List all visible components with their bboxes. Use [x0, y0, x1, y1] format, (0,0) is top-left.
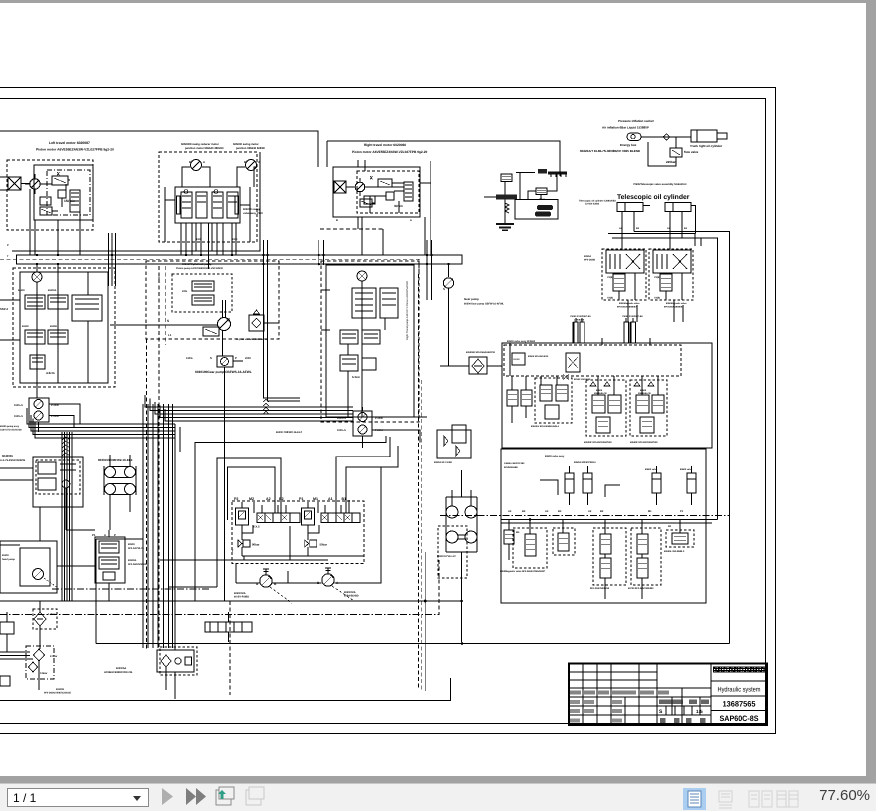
svg-text:Y.X.5: Y.X.5	[253, 525, 260, 529]
pilot dashed vertical 5	[229, 601, 231, 695]
svg-text:A2: A2	[266, 497, 271, 501]
wire right travel link	[346, 186, 355, 188]
svg-text:6030153 CMFW2-16-ELZ: 6030153 CMFW2-16-ELZ	[98, 458, 133, 462]
dashed pilot line right travel	[320, 228, 383, 230]
R valve s1	[525, 534, 536, 556]
pilot throttle	[203, 327, 219, 336]
tank breather circle	[175, 658, 181, 664]
swing pilot valves 1	[540, 385, 552, 401]
svg-text:190%.S: 190%.S	[14, 404, 23, 407]
P1 wires	[108, 530, 110, 601]
R dashed subbox 1	[513, 528, 547, 568]
wire bundle left travel to pumps	[27, 408, 175, 424]
rotary joint circle 3	[446, 531, 458, 543]
upper boundary wire y141	[327, 141, 560, 176]
R loops upper	[570, 493, 692, 505]
svg-text:6F56C 250-B/30: 6F56C 250-B/30	[574, 378, 591, 381]
right travel brake symbol	[334, 181, 346, 193]
motor M2 circle	[355, 182, 365, 192]
telescopic cylinder 1	[617, 203, 643, 212]
svg-text:P 2000: P 2000	[375, 429, 383, 432]
drawing frame outer border	[0, 88, 776, 734]
test rail wire	[547, 175, 557, 192]
aux pump small circle	[62, 480, 70, 488]
swing block inner circles	[184, 190, 218, 194]
rt pump regulator block	[380, 288, 398, 318]
svg-text:6040055: 6040055	[2, 454, 13, 458]
svg-text:605000 swing motor: 605000 swing motor	[233, 143, 259, 146]
telescopic balance valve 2 dashed enclosure	[649, 249, 693, 300]
svg-text:6050000 9F0-D60AGB4Y/B: 6050000 9F0-D60AGB4Y/B	[466, 351, 495, 354]
svg-text:60700 9F0-360/V50E/B3: 60700 9F0-360/V50E/B3	[628, 587, 654, 590]
rt valve row 3	[340, 355, 358, 371]
svg-text:60500: 60500	[596, 389, 603, 392]
svg-text:3l/min: 3l/min	[394, 204, 403, 208]
svg-text:B4: B4	[522, 510, 526, 513]
hand pump enclosure	[0, 541, 57, 593]
crossed check bridge 1	[626, 254, 640, 269]
pilot bus dashed line	[0, 259, 419, 274]
test circuit hatch body	[496, 195, 517, 200]
svg-text:A: A	[410, 219, 412, 222]
valve in right travel motor	[378, 179, 392, 187]
test wire top link	[516, 172, 535, 174]
P2 wires	[242, 502, 254, 556]
tank level square	[185, 657, 192, 665]
filter wires	[39, 601, 40, 690]
svg-text:SAP60C-8S: SAP60C-8S	[720, 714, 759, 723]
truck right oil cylinder	[691, 130, 717, 142]
rt motor tick marks	[350, 178, 360, 196]
swing block risers to bus	[181, 223, 236, 255]
A2B2 solenoid valve	[257, 513, 300, 523]
R valve s3	[600, 534, 611, 554]
pilot valve 1	[192, 281, 214, 291]
svg-text:6040C: 6040C	[22, 325, 29, 328]
riser trio left manifold	[109, 233, 116, 286]
Q left wires	[512, 376, 526, 423]
filter F2 diamond lower	[29, 662, 38, 672]
rotary joint circle 4	[465, 531, 477, 543]
filter F2 box dashdot	[26, 646, 54, 679]
bottom left aux valve	[0, 622, 14, 634]
return line bottom 2	[96, 539, 729, 644]
pilot dashed horizontal centre	[0, 614, 439, 616]
next page arrow icon	[156, 785, 376, 811]
left pump pair box	[29, 398, 49, 422]
svg-text:60600 valve: 60600 valve	[680, 468, 693, 471]
svg-text:P: P	[114, 533, 116, 537]
rotary joint wires	[452, 470, 471, 601]
svg-text:6050008 swing reducer motor: 6050008 swing reducer motor	[181, 143, 219, 146]
gauge dashed leader left	[270, 587, 292, 603]
svg-text:S: S	[210, 356, 212, 360]
svg-text:60P4-BD/BD: 60P4-BD/BD	[344, 595, 359, 598]
aux pump block	[33, 457, 83, 507]
lt motor arrows	[57, 172, 60, 176]
svg-text:250-B-BL/30: 250-B-BL/30	[638, 392, 651, 395]
svg-text:Truck right oil cylinder: Truck right oil cylinder	[690, 144, 723, 148]
R dashed subbox 2	[553, 528, 575, 555]
svg-text:9F0-D604V50E/B: 9F0-D604V50E/B	[128, 563, 147, 566]
wire bus to main pump	[448, 264, 450, 277]
svg-text:Air inflation 6Bar Liquid 1538: Air inflation 6Bar Liquid 153880P	[602, 126, 649, 130]
svg-text:B1: B1	[342, 497, 347, 501]
title row dividers right	[711, 681, 767, 711]
main delivery loop L1	[195, 436, 386, 601]
gauge rail segments	[236, 467, 381, 583]
svg-text:190%.S: 190%.S	[14, 415, 23, 418]
left manifold valve a	[25, 295, 45, 309]
telescopic balance valve 1 body	[606, 250, 644, 273]
return line mid	[160, 559, 280, 561]
rotary joint frame	[446, 497, 477, 552]
swing assembly dashed enclosure	[159, 152, 257, 242]
rotary joint circle 1	[446, 506, 458, 518]
svg-text:P 2000: P 2000	[51, 404, 59, 407]
svg-text:13680A 360F/CF360: 13680A 360F/CF360	[504, 462, 525, 465]
svg-text:A3: A3	[545, 510, 549, 513]
junction dots bottom	[461, 642, 464, 645]
right shuttle valve	[364, 196, 375, 204]
vertical bundle left centre	[61, 432, 63, 462]
right pump circle lower	[358, 425, 367, 434]
svg-text:60500L 250-B5/B-3: 60500L 250-B5/B-3	[664, 550, 685, 553]
tank assembly box	[157, 650, 194, 672]
svg-text:13687565: 13687565	[723, 700, 757, 709]
svg-text:Telescopic oil cylinder: Telescopic oil cylinder	[617, 194, 690, 201]
svg-text:13-504-42/B3: 13-504-42/B3	[585, 203, 600, 206]
wires telescopic assembly 2	[666, 273, 682, 300]
delivery loop L2	[217, 458, 281, 587]
swing pilot dashed box 1	[535, 378, 572, 423]
left manifold valve c	[25, 330, 45, 344]
pilot valve 2	[192, 295, 214, 305]
svg-text:9F0/B3604B9: 9F0/B3604B9	[504, 466, 518, 469]
svg-text:Hydraulic system: Hydraulic system	[718, 687, 761, 694]
wire breather row	[228, 612, 230, 642]
delivery loop L3	[228, 467, 276, 520]
right pump wires down	[362, 407, 364, 448]
svg-text:S: S	[167, 319, 169, 323]
aux pump inner valve	[38, 462, 56, 474]
R internal wires	[530, 520, 680, 535]
svg-text:Right travel motor 6020060: Right travel motor 6020060	[364, 143, 406, 147]
motor M1 circle	[30, 179, 40, 189]
svg-text:60400A: 60400A	[48, 289, 57, 292]
drawing frame inner border	[0, 99, 766, 724]
svg-text:250-B-BL/30: 250-B-BL/30	[594, 392, 607, 395]
P2 relief valve	[238, 540, 242, 547]
rt motor inner valve 2	[360, 199, 372, 207]
svg-text:A2: A2	[588, 510, 592, 513]
wires swing block down	[186, 223, 232, 255]
right travel pump body	[326, 265, 414, 417]
svg-text:9F0-D60B: 9F0-D60B	[584, 259, 595, 262]
svg-text:9F0-D60GV50E/V25AGE: 9F0-D60GV50E/V25AGE	[44, 692, 72, 695]
tank wires	[166, 642, 175, 699]
svg-text:junction motor 955640 4E0260: junction motor 955640 4E0260	[184, 147, 224, 150]
test circuit wires	[505, 173, 541, 224]
pilot dashed vertical 1	[146, 339, 148, 650]
swing manifold body Q	[502, 343, 712, 448]
title bottom row glyphs	[660, 718, 666, 723]
A1B1 solenoid valve	[321, 513, 360, 523]
svg-text:6050Magnetic valve 9F0-360A/V2: 6050Magnetic valve 9F0-360A/V25AGE/8?	[500, 570, 546, 573]
swing valve block	[175, 187, 240, 223]
svg-text:B: B	[189, 160, 191, 164]
svg-text:70kW/Telescopic valve assembly: 70kW/Telescopic valve assembly SAB-R/A3	[633, 183, 687, 186]
svg-text:2.0bar: 2.0bar	[50, 655, 57, 658]
gear pump box	[217, 356, 233, 367]
relief block above rotary joint	[437, 430, 471, 458]
svg-text:60520A/ 9F0-D6/9B0-/B/B-4: 60520A/ 9F0-D6/9B0-/B/B-4	[531, 425, 560, 428]
svg-text:60400 CMFW2-16-ELZ: 60400 CMFW2-16-ELZ	[276, 431, 302, 434]
svg-text:P1: P1	[299, 497, 303, 501]
test left stub	[484, 196, 496, 198]
svg-text:2000: 2000	[232, 238, 238, 241]
upper boundary wire y131	[0, 131, 318, 167]
bottom left small box2	[0, 676, 10, 686]
riser x175 to tank	[174, 448, 176, 642]
counterbalance valve	[70, 190, 80, 212]
standing cylinder pair 2 on manifold	[624, 322, 629, 343]
swivel joint circle crossed	[32, 272, 42, 282]
svg-text:Right Travel pump A10VO71 Pist: Right Travel pump A10VO71 Piston-LRDSFN2…	[406, 281, 409, 340]
left bundle continuation down	[61, 462, 63, 601]
pilot filter before manifold	[469, 357, 487, 374]
svg-text:Y2(B): Y2(B)	[654, 276, 660, 279]
svg-text:60600 valve assy: 60600 valve assy	[545, 455, 565, 458]
wire motor down	[30, 189, 58, 255]
svg-text:6060A 6F-CL/88: 6060A 6F-CL/88	[434, 461, 452, 464]
lt motor inner valve2	[40, 207, 52, 215]
telescopic balance valve 1 dashed enclosure	[602, 249, 646, 300]
svg-text:P 2000: P 2000	[375, 417, 383, 420]
R left small valves	[504, 530, 514, 544]
gear pump wires	[225, 361, 244, 392]
rt valve row 4	[362, 358, 376, 370]
svg-text:Piston motor A6VE55EZ4/63W-VZL: Piston motor A6VE55EZ4/63W-VZL027FPB 9g2…	[36, 148, 114, 152]
pilot dashed vertical 4	[421, 380, 423, 690]
wire pump vertical pair	[223, 300, 280, 356]
R small cylinders group	[565, 473, 574, 493]
right pump circle upper	[358, 413, 367, 422]
R valve s5	[672, 533, 688, 544]
title tiny labels	[570, 691, 581, 695]
R bus line 1	[501, 519, 718, 521]
pilot group bottom rail	[242, 555, 364, 557]
swing manifold top dashed area	[504, 345, 681, 376]
wire bundle centre to right pumps	[145, 395, 353, 407]
swing motor A circle	[191, 160, 202, 171]
solenoid valve under assembly 2	[660, 274, 672, 291]
svg-text:190%.S: 190%.S	[337, 429, 346, 432]
solenoid valve under assembly 1	[613, 274, 625, 291]
main pressure bus band	[17, 255, 463, 264]
svg-text:A: A	[203, 160, 205, 164]
svg-text:60500A: 60500A	[128, 559, 137, 562]
svg-text:A10VO71+A10VO28: A10VO71+A10VO28	[0, 429, 22, 432]
test tank symbol	[496, 223, 514, 225]
svg-text:A1: A1	[328, 497, 333, 501]
svg-text:Y5050 DY5/P9E7.B6: Y5050 DY5/P9E7.B6	[622, 315, 643, 318]
title block company name	[714, 667, 767, 672]
gauge circle left	[260, 575, 272, 587]
pilot dashed vertical 2	[158, 266, 160, 648]
rt pump swivel circle	[357, 271, 367, 281]
svg-text:60600 valve: 60600 valve	[645, 468, 658, 471]
svg-text:P: P	[7, 244, 9, 247]
wire chevrons pilot riser	[263, 400, 269, 403]
svg-text:6040D: 6040D	[50, 325, 57, 328]
riser pair right travel manifold	[319, 240, 324, 265]
P2 reducing valve box	[236, 508, 249, 525]
swing valve section 1	[181, 192, 192, 218]
swing work valves 3	[634, 382, 654, 386]
return line bottom 1	[0, 600, 461, 602]
svg-text:T: T	[232, 549, 234, 553]
lt motor small sq	[58, 190, 66, 198]
X mark under solenoid	[563, 374, 569, 380]
telescopic loop wires upper right	[608, 234, 701, 246]
swing valve section 4	[227, 192, 238, 218]
left mid horizontal y539	[96, 538, 143, 540]
return trunk drops	[225, 601, 329, 612]
R dashed subbox 5	[666, 530, 694, 547]
svg-text:9F0-D4Y50-CL: 9F0-D4Y50-CL	[128, 547, 145, 550]
svg-text:P1: P1	[92, 533, 96, 537]
rt valve row 1	[340, 330, 358, 344]
wires swing motor B	[237, 167, 257, 187]
rotary joint link	[458, 535, 465, 539]
right travel motor block	[333, 167, 420, 217]
right counterbalance valve	[404, 182, 413, 201]
svg-text:60300 pump assy: 60300 pump assy	[0, 425, 20, 428]
solid line y587	[168, 586, 217, 588]
triple return lines left	[0, 652, 33, 659]
rt motor inner small sq	[386, 192, 394, 200]
wire left travel ports	[30, 212, 80, 255]
swing enclosure bottom line	[12, 152, 260, 251]
svg-text:P2: P2	[234, 497, 238, 501]
svg-text:1005: 1005	[196, 238, 202, 241]
wire x109 down	[108, 583, 110, 601]
svg-text:hand pump: hand pump	[2, 558, 15, 561]
test circuit valve A	[501, 174, 512, 182]
svg-text:Piston pump A10VO28DR/31R-VSC1: Piston pump A10VO28DR/31R-VSC12N00	[176, 267, 223, 270]
filter F2 diamond upper	[34, 649, 45, 661]
long wire bus lower nest	[175, 424, 180, 452]
svg-text:60400: 60400	[2, 554, 9, 557]
right pump outputs	[372, 417, 427, 443]
svg-text:Y2(B): Y2(B)	[607, 297, 613, 300]
wire main pump down	[448, 288, 450, 366]
P1 row wires	[308, 502, 318, 556]
wire centre x254 down	[253, 470, 255, 506]
svg-text:L1: L1	[168, 333, 172, 337]
svg-text:B2: B2	[600, 510, 604, 513]
rt box right wires	[420, 161, 431, 255]
rt manifold wires	[348, 281, 385, 417]
swing work dashed box 2	[586, 380, 626, 436]
manifold Q top ties	[510, 338, 650, 376]
rt port marks	[321, 290, 330, 330]
accumulator down wire	[675, 137, 677, 148]
left pump circle lower	[34, 411, 43, 420]
svg-text:B: B	[244, 160, 246, 164]
svg-text:60500 valve assy 9F0360: 60500 valve assy 9F0360	[507, 340, 536, 343]
Q left small valves	[507, 390, 518, 406]
svg-text:M1: M1	[313, 497, 318, 501]
R dashdot pilot line	[440, 515, 729, 517]
left manifold relief	[30, 355, 45, 369]
rt valve row 2	[362, 330, 380, 344]
bus drop to left manifold	[37, 264, 58, 268]
riser pair pilot X Y	[264, 240, 268, 302]
svg-text:60500: 60500	[128, 543, 135, 546]
svg-text:Energy box: Energy box	[620, 143, 637, 147]
gauge tee symbol left	[263, 569, 269, 575]
svg-text:4.3cm: 4.3cm	[46, 371, 55, 375]
pilot dashdot horizontal upper	[52, 588, 210, 590]
riser to x730 from cylinder1	[634, 232, 729, 644]
svg-text:60500F 9F0-2G5V50/2V50: 60500F 9F0-2G5V50/2V50	[630, 441, 658, 444]
gauge circle right	[322, 574, 334, 586]
tank drop from riser	[174, 642, 176, 650]
svg-text:13/5/B340: 13/5/B340	[574, 319, 585, 322]
svg-text:60300 DYVE-I-8?: 60300 DYVE-I-8?	[437, 555, 456, 558]
delivery loop L5	[346, 446, 398, 513]
riser pair main pump top	[427, 240, 432, 300]
aux pump inner dashed box	[36, 460, 80, 494]
P1 valve enclosure	[95, 537, 125, 583]
svg-text:22%: 22%	[182, 290, 188, 293]
test circuit valve B	[536, 188, 547, 195]
accumulator symbol	[627, 133, 641, 141]
bottom line x96 upper	[95, 539, 97, 642]
title block table	[569, 664, 767, 726]
wires left pump	[37, 264, 39, 432]
wire bundle pilot riser pair	[264, 302, 301, 401]
svg-text:15l/min: 15l/min	[64, 199, 75, 203]
hand pump dashes	[44, 578, 58, 588]
svg-text:Y2(B): Y2(B)	[607, 276, 613, 279]
R valve s2	[558, 533, 569, 551]
pilot control valves dashed enclosure	[232, 501, 364, 564]
left manifold centre wires	[37, 268, 88, 383]
riser swing single	[208, 223, 210, 269]
telescopic cylinder 2	[665, 203, 691, 212]
right travel inner wires	[365, 160, 404, 213]
pilot check block	[249, 315, 264, 331]
hand pump circle	[33, 569, 44, 580]
right travel pump dashed enclosure	[321, 261, 419, 422]
svg-text:P1: P1	[680, 510, 684, 513]
swing pilot wires	[165, 200, 250, 240]
wire A2B2 up	[262, 505, 286, 513]
left manifold valve b	[48, 295, 68, 309]
P1 valve bottom small	[103, 572, 115, 580]
svg-text:Left travel motor 6020087: Left travel motor 6020087	[49, 141, 90, 145]
wires swing motor A	[182, 167, 210, 187]
svg-text:junction 955640 50E08: junction 955640 50E08	[235, 147, 265, 150]
wire from motor to brake	[21, 183, 30, 185]
svg-text:6050Magnetic valve: 6050Magnetic valve	[619, 302, 640, 305]
svg-text:Gear pump: Gear pump	[464, 297, 479, 301]
R bus line 2	[501, 522, 712, 524]
test coupler box	[515, 200, 558, 220]
